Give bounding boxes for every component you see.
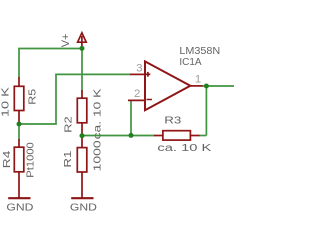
op-amp minus mark	[147, 99, 153, 101]
svg-text:10 K: 10 K	[0, 87, 11, 117]
wire node B to R3 left	[82, 135, 155, 137]
wire node A to op-amp pin3	[19, 74, 131, 124]
node V+ junction	[80, 46, 85, 51]
supply V+ arrow	[78, 33, 87, 48]
wire pin2 riser	[130, 100, 132, 135]
svg-text:1: 1	[195, 74, 201, 86]
wire node A below dot	[18, 124, 20, 140]
resistor R5	[14, 77, 23, 123]
svg-text:R3: R3	[164, 114, 181, 126]
svg-text:R1: R1	[61, 150, 73, 167]
svg-text:R4: R4	[1, 150, 13, 168]
svg-text:IC1A: IC1A	[179, 57, 201, 68]
resistor R1	[77, 136, 87, 198]
ground right GND	[71, 197, 93, 199]
svg-text:GND: GND	[70, 202, 97, 213]
node OUT junction	[204, 84, 209, 89]
node A junction (R5/R4)	[17, 122, 22, 127]
node B junction (R2/R1)	[80, 133, 85, 138]
svg-text:GND: GND	[6, 202, 33, 213]
op-amp plus mark	[146, 72, 151, 77]
svg-text:1000: 1000	[91, 140, 103, 171]
op-amp pin 3 stub	[130, 73, 145, 75]
svg-text:V+: V+	[60, 34, 72, 48]
ground left GND	[8, 197, 30, 199]
svg-text:R2: R2	[63, 116, 75, 132]
op-amp U1 IC1A triangle	[145, 61, 190, 110]
svg-text:LM358N: LM358N	[179, 45, 220, 57]
svg-text:3: 3	[136, 63, 142, 75]
wire V+ down to R2	[81, 49, 83, 91]
wire V+ horizontal net	[18, 48, 82, 50]
op-amp pin 1 output stub	[190, 85, 203, 87]
svg-text:ca. 10 K: ca. 10 K	[91, 88, 103, 140]
svg-text:2: 2	[134, 88, 140, 100]
op-amp pin 2 stub	[128, 99, 145, 101]
svg-text:Pt1000: Pt1000	[25, 142, 37, 177]
resistor R4	[14, 139, 23, 198]
wire V+ down to R5	[18, 49, 20, 78]
wire output to right edge	[202, 85, 234, 87]
node C junction (pin2/R3)	[129, 133, 134, 138]
svg-text:R5: R5	[27, 89, 38, 105]
wire output riser vertical	[205, 86, 207, 136]
wire R3 right to output riser	[199, 135, 207, 137]
resistor R2	[77, 90, 87, 135]
svg-text:ca. 10 K: ca. 10 K	[157, 141, 211, 153]
resistor R3	[154, 131, 200, 140]
